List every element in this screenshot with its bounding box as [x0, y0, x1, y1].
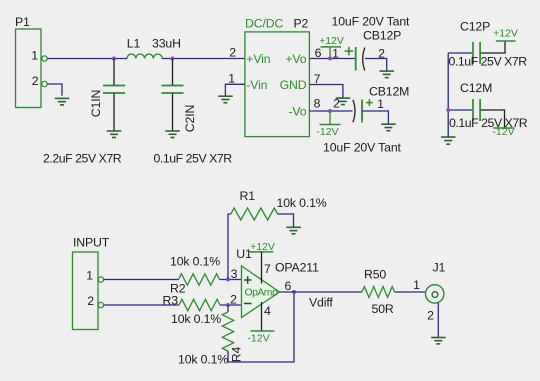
svg-text:0.1uF 25V X7R: 0.1uF 25V X7R	[449, 116, 528, 130]
ground (R1)	[286, 227, 301, 234]
wire R50 to J1	[395, 291, 426, 293]
svg-text:-Vin: -Vin	[246, 78, 267, 92]
wire R1 to ground	[278, 214, 294, 227]
node junction (pin 3)	[226, 278, 230, 282]
svg-text:GND: GND	[280, 78, 307, 92]
wire L1 to DC/DC +Vin	[162, 58, 245, 60]
power symbol +12V (CB12P)	[319, 35, 344, 59]
op-amp U1	[236, 247, 279, 318]
wire INPUT pin1 to R2	[104, 279, 179, 281]
wire R3 to op-amp pin2	[220, 304, 242, 306]
connector J1	[426, 261, 446, 304]
wire R2 to op-amp pin3	[220, 279, 242, 281]
svg-text:-12V: -12V	[316, 126, 338, 138]
svg-text:2.2uF 25V X7R: 2.2uF 25V X7R	[43, 152, 122, 166]
power symbol -12V (op-amp pin 4)	[247, 302, 274, 345]
svg-text:C2IN: C2IN	[183, 105, 197, 132]
svg-text:-Vo: -Vo	[288, 105, 306, 119]
svg-text:50R: 50R	[372, 302, 394, 316]
svg-text:7: 7	[264, 262, 271, 276]
power symbol +12V (op-amp pin 7)	[249, 241, 275, 284]
wire R4 feedback to output	[228, 292, 294, 362]
svg-text:0.1uF 25V X7R: 0.1uF 25V X7R	[154, 152, 233, 166]
svg-text:8: 8	[314, 97, 321, 111]
resistor R2	[170, 255, 220, 296]
node junction (pin1 wire / C1IN)	[112, 57, 116, 61]
ground (J1)	[431, 338, 446, 344]
svg-text:Vdiff: Vdiff	[309, 296, 333, 310]
connector INPUT	[73, 236, 110, 330]
connector P1	[15, 15, 41, 108]
svg-text:CB12P: CB12P	[363, 29, 401, 43]
INPUT pin 1	[86, 268, 103, 282]
svg-text:1: 1	[332, 47, 339, 61]
capacitor CB12M	[333, 85, 409, 123]
power symbol +12V (C12P)	[493, 28, 518, 42]
svg-text:P2: P2	[294, 17, 309, 31]
P1 pin 1	[31, 48, 47, 62]
inductor L1	[127, 37, 181, 59]
wire J1 pin2 to ground	[437, 303, 439, 338]
svg-text:10uF 20V Tant: 10uF 20V Tant	[323, 141, 402, 155]
ground (C2IN)	[165, 131, 180, 138]
svg-text:+Vo: +Vo	[285, 52, 306, 66]
ground (CB12M)	[381, 124, 396, 131]
resistor R50	[362, 268, 395, 317]
svg-text:OpAmp: OpAmp	[245, 287, 278, 298]
svg-text:R3: R3	[163, 294, 179, 308]
svg-text:4: 4	[264, 304, 271, 318]
svg-text:R4: R4	[230, 346, 244, 362]
wire -Vo to CB12M	[309, 110, 352, 112]
ground (P1 pin2)	[55, 98, 70, 105]
svg-text:C12M: C12M	[460, 81, 492, 95]
svg-text:1: 1	[413, 278, 420, 292]
capacitor CB12P	[332, 29, 401, 71]
svg-text:33uH: 33uH	[152, 37, 181, 51]
wire ground rail (C12P/C12M)	[447, 53, 449, 137]
capacitor C1IN	[89, 59, 125, 132]
svg-text:2: 2	[333, 97, 340, 111]
svg-text:+12V: +12V	[319, 35, 344, 47]
svg-text:10uF 20V Tant: 10uF 20V Tant	[332, 15, 411, 29]
capacitor C12M	[448, 81, 504, 128]
svg-text:2: 2	[427, 309, 434, 323]
wire CB12M to ground	[362, 111, 388, 124]
wire INPUT pin2 to R3	[104, 304, 179, 306]
ground (-Vin)	[218, 96, 233, 103]
svg-text:0.1uF 25V X7R: 0.1uF 25V X7R	[449, 55, 528, 69]
svg-text:10k 0.1%: 10k 0.1%	[277, 196, 327, 210]
ground (rail)	[441, 137, 456, 144]
svg-text:1: 1	[86, 268, 93, 282]
P1 pin 2	[32, 74, 47, 88]
wire P1 pin2 to ground	[47, 84, 62, 96]
svg-text:P1: P1	[15, 15, 30, 29]
svg-text:10k 0.1%: 10k 0.1%	[178, 353, 228, 367]
svg-text:-12V: -12V	[247, 333, 269, 345]
svg-text:6: 6	[284, 279, 291, 293]
node junction (-12V tap)	[328, 109, 332, 113]
ground (pin 7)	[336, 98, 351, 105]
svg-text:OPA211: OPA211	[275, 261, 319, 275]
wire op-amp output to R50	[280, 291, 363, 293]
svg-text:10k 0.1%: 10k 0.1%	[170, 255, 220, 269]
wire P1 pin1 to L1	[47, 58, 127, 60]
svg-text:R50: R50	[364, 268, 386, 282]
svg-text:DC/DC: DC/DC	[245, 17, 283, 31]
capacitor C2IN	[162, 59, 198, 133]
node junction (C12M tap)	[446, 108, 450, 112]
svg-text:L1: L1	[127, 37, 141, 51]
node junction (output)	[292, 290, 296, 294]
svg-text:J1: J1	[433, 261, 446, 275]
ground (C1IN)	[107, 131, 122, 138]
svg-text:2: 2	[229, 46, 236, 60]
svg-text:2: 2	[32, 74, 39, 88]
svg-text:2: 2	[230, 293, 237, 307]
power symbol -12V (CB12M)	[316, 111, 340, 138]
svg-text:3: 3	[231, 267, 238, 281]
svg-text:R1: R1	[240, 189, 256, 203]
capacitor C12P	[448, 20, 505, 65]
svg-text:10k 0.1%: 10k 0.1%	[171, 312, 221, 326]
wire junction to R1	[228, 214, 231, 280]
resistor R4	[178, 305, 244, 367]
INPUT pin 2	[87, 294, 103, 308]
wire -Vin to ground	[225, 84, 245, 95]
svg-text:+12V: +12V	[493, 28, 518, 40]
svg-text:1: 1	[31, 48, 38, 62]
svg-text:1: 1	[377, 97, 384, 111]
svg-text:INPUT: INPUT	[73, 236, 110, 250]
svg-text:CB12M: CB12M	[369, 85, 409, 99]
wire CB12P to ground	[365, 59, 387, 71]
node junction (C2IN)	[171, 57, 175, 61]
DC/DC converter P2	[245, 17, 310, 137]
wire GND pin to ground	[309, 85, 343, 98]
power symbol -12V (C12M)	[492, 126, 514, 138]
svg-text:C1IN: C1IN	[89, 90, 103, 117]
svg-text:+Vin: +Vin	[246, 52, 270, 66]
svg-text:1: 1	[228, 72, 235, 86]
op-amp - input mark	[244, 303, 252, 305]
svg-text:2: 2	[87, 294, 94, 308]
node junction (pin 2)	[226, 303, 230, 307]
op-amp + input mark	[244, 276, 252, 284]
ground (CB12P)	[380, 71, 395, 78]
resistor R3	[163, 294, 222, 327]
svg-text:C12P: C12P	[460, 20, 490, 34]
resistor R1	[231, 189, 327, 220]
node junction (+12V tap)	[328, 57, 332, 61]
wire +Vo to CB12P	[309, 58, 355, 60]
